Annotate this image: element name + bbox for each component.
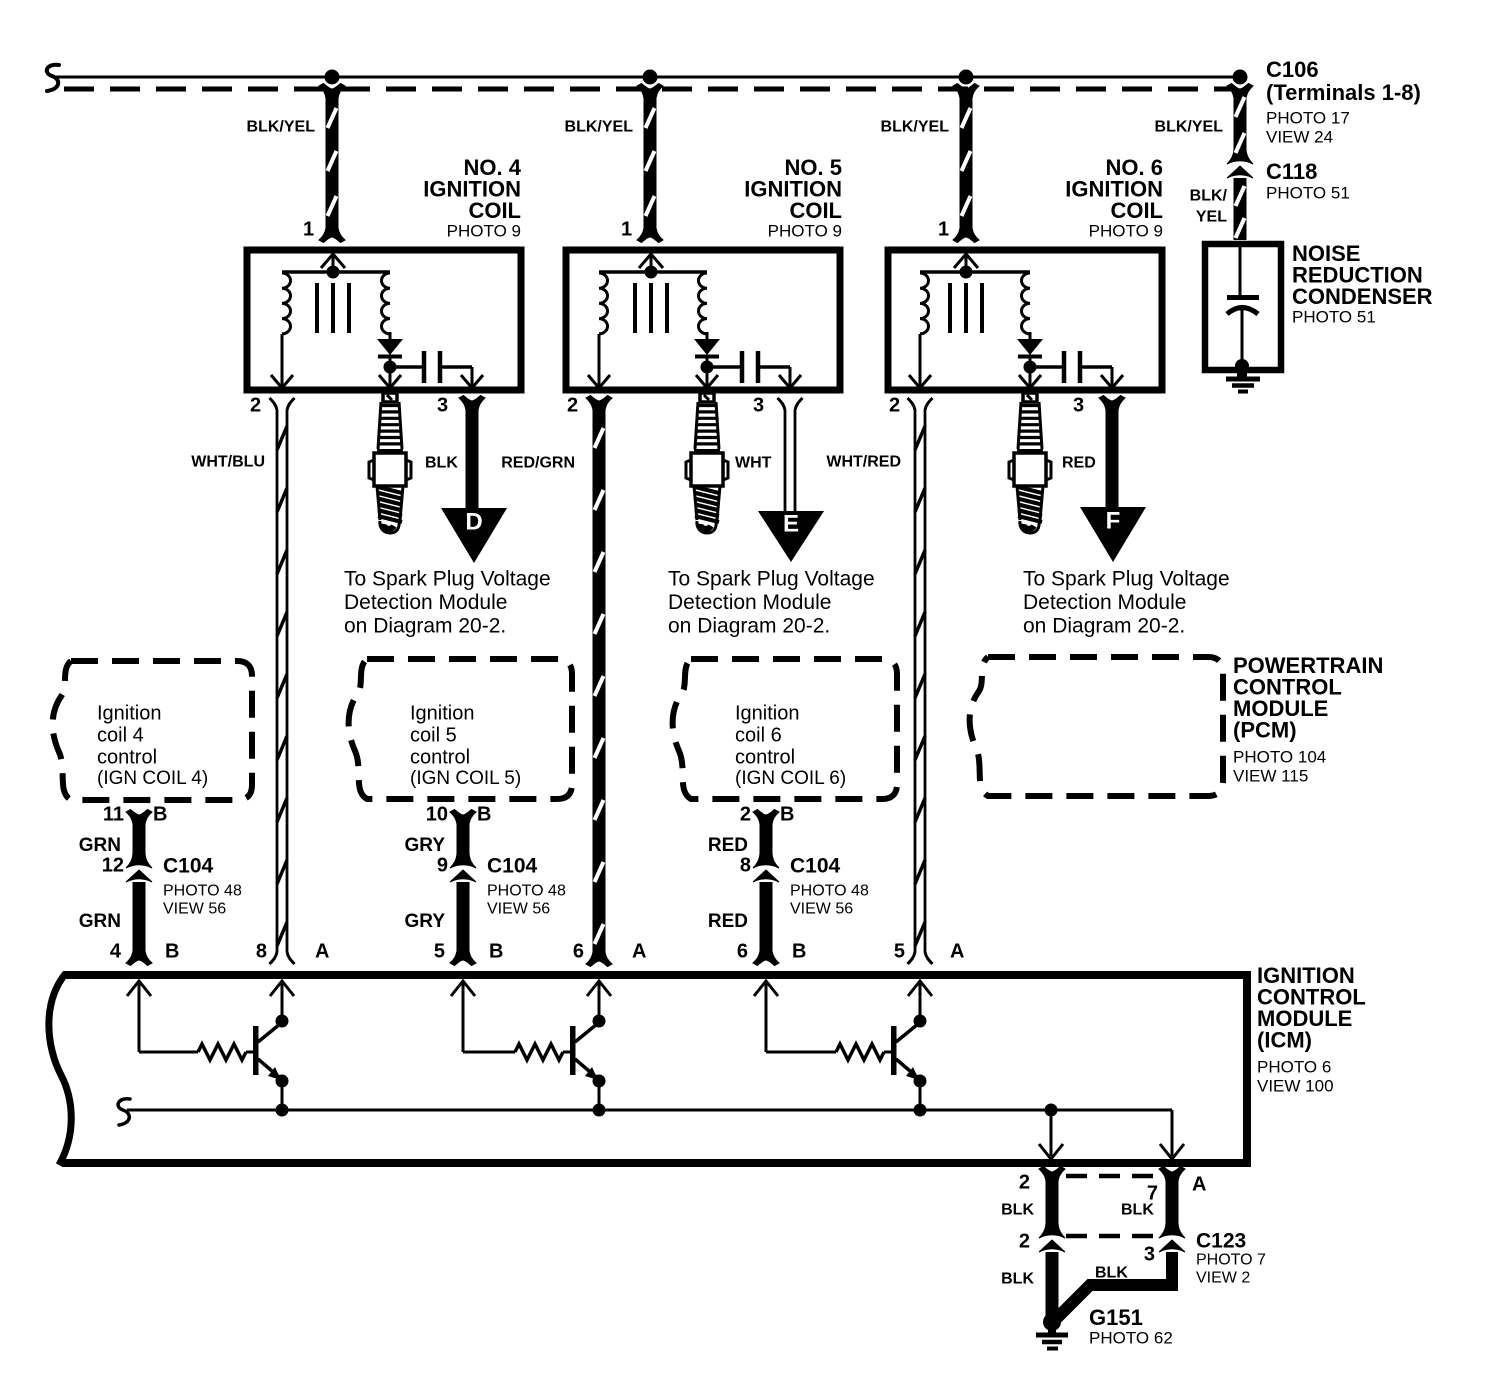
svg-text:Ignition: Ignition <box>410 703 475 725</box>
svg-text:8: 8 <box>256 941 267 963</box>
svg-text:BLK/YEL: BLK/YEL <box>565 119 634 136</box>
svg-text:B: B <box>477 804 491 826</box>
svg-text:VIEW 115: VIEW 115 <box>1233 766 1308 785</box>
svg-text:C123: C123 <box>1196 1229 1246 1252</box>
svg-text:2: 2 <box>1019 1231 1030 1253</box>
svg-text:PHOTO 9: PHOTO 9 <box>1089 221 1163 240</box>
svg-text:BLK/YEL: BLK/YEL <box>881 119 950 136</box>
svg-text:F: F <box>1106 508 1121 535</box>
svg-text:VIEW 24: VIEW 24 <box>1266 127 1333 146</box>
svg-text:on Diagram 20-2.: on Diagram 20-2. <box>668 614 830 637</box>
svg-text:PHOTO 48: PHOTO 48 <box>163 883 242 900</box>
svg-text:(IGN COIL 5): (IGN COIL 5) <box>410 768 521 789</box>
svg-text:GRN: GRN <box>79 835 121 856</box>
svg-text:A: A <box>632 941 646 963</box>
svg-text:CONDENSER: CONDENSER <box>1292 284 1433 309</box>
svg-text:BLK/YEL: BLK/YEL <box>1155 119 1224 136</box>
svg-text:VIEW 56: VIEW 56 <box>790 901 853 918</box>
svg-text:COIL: COIL <box>468 198 521 223</box>
svg-text:3: 3 <box>437 395 448 417</box>
svg-text:3: 3 <box>1073 395 1084 417</box>
svg-text:BLK: BLK <box>1001 1271 1034 1288</box>
svg-text:3: 3 <box>1144 1244 1155 1266</box>
svg-text:2: 2 <box>889 395 900 417</box>
svg-text:BLK: BLK <box>1001 1202 1034 1219</box>
svg-text:1: 1 <box>938 219 949 241</box>
svg-text:PHOTO 7: PHOTO 7 <box>1196 1252 1266 1269</box>
svg-text:5: 5 <box>894 941 905 963</box>
svg-text:(IGN COIL 6): (IGN COIL 6) <box>735 768 846 789</box>
svg-text:GRN: GRN <box>79 911 121 932</box>
svg-text:PHOTO 9: PHOTO 9 <box>768 221 842 240</box>
svg-text:BLK: BLK <box>1121 1202 1154 1219</box>
svg-text:6: 6 <box>737 941 748 963</box>
svg-text:B: B <box>792 941 806 963</box>
svg-text:WHT: WHT <box>735 455 772 472</box>
svg-text:E: E <box>783 511 799 538</box>
svg-text:D: D <box>465 509 482 536</box>
svg-text:Detection Module: Detection Module <box>1023 591 1186 614</box>
svg-text:B: B <box>489 941 503 963</box>
svg-text:PHOTO 51: PHOTO 51 <box>1266 183 1350 202</box>
svg-text:on Diagram 20-2.: on Diagram 20-2. <box>1023 614 1185 637</box>
svg-text:control: control <box>97 747 157 769</box>
svg-text:VIEW 56: VIEW 56 <box>487 901 550 918</box>
svg-text:12: 12 <box>102 855 124 877</box>
svg-text:BLK/: BLK/ <box>1190 188 1228 205</box>
svg-text:G151: G151 <box>1089 1305 1143 1330</box>
svg-text:RED: RED <box>708 911 748 932</box>
svg-text:BLK/YEL: BLK/YEL <box>247 119 316 136</box>
svg-text:To Spark Plug Voltage: To Spark Plug Voltage <box>1023 567 1230 590</box>
svg-text:control: control <box>410 747 470 769</box>
svg-text:B: B <box>780 804 794 826</box>
svg-text:Ignition: Ignition <box>735 703 800 725</box>
svg-text:coil 6: coil 6 <box>735 725 782 747</box>
svg-text:VIEW 56: VIEW 56 <box>163 901 226 918</box>
svg-text:coil 4: coil 4 <box>97 725 144 747</box>
svg-text:(ICM): (ICM) <box>1257 1028 1312 1053</box>
svg-text:COIL: COIL <box>1110 198 1163 223</box>
svg-text:C106: C106 <box>1266 57 1319 82</box>
svg-text:2: 2 <box>740 804 751 826</box>
svg-text:11: 11 <box>103 804 124 826</box>
svg-text:1: 1 <box>303 219 314 241</box>
svg-text:Detection Module: Detection Module <box>668 591 831 614</box>
svg-text:2: 2 <box>250 395 261 417</box>
svg-text:Ignition: Ignition <box>97 703 162 725</box>
svg-text:PHOTO 104: PHOTO 104 <box>1233 747 1326 766</box>
svg-text:(Terminals 1-8): (Terminals 1-8) <box>1266 80 1421 105</box>
svg-text:C118: C118 <box>1266 159 1317 184</box>
svg-text:(PCM): (PCM) <box>1233 718 1297 743</box>
svg-text:YEL: YEL <box>1196 209 1227 226</box>
svg-text:RED: RED <box>1062 455 1096 472</box>
svg-text:VIEW 100: VIEW 100 <box>1257 1076 1334 1095</box>
svg-text:2: 2 <box>1019 1172 1030 1194</box>
svg-text:C104: C104 <box>790 854 841 877</box>
svg-text:To Spark Plug Voltage: To Spark Plug Voltage <box>668 567 875 590</box>
svg-text:A: A <box>315 941 329 963</box>
svg-text:BLK: BLK <box>425 455 458 472</box>
svg-text:6: 6 <box>573 941 584 963</box>
svg-text:To Spark Plug Voltage: To Spark Plug Voltage <box>344 567 551 590</box>
svg-text:(IGN COIL 4): (IGN COIL 4) <box>97 768 208 789</box>
svg-text:B: B <box>153 804 167 826</box>
svg-text:PHOTO 9: PHOTO 9 <box>447 221 521 240</box>
svg-text:PHOTO 51: PHOTO 51 <box>1292 307 1376 326</box>
svg-text:GRY: GRY <box>405 835 446 856</box>
svg-text:PHOTO 6: PHOTO 6 <box>1257 1057 1331 1076</box>
svg-text:WHT/BLU: WHT/BLU <box>191 454 265 471</box>
svg-text:A: A <box>1192 1174 1206 1196</box>
svg-text:PHOTO 62: PHOTO 62 <box>1089 1328 1173 1347</box>
svg-text:VIEW 2: VIEW 2 <box>1196 1270 1250 1287</box>
svg-text:A: A <box>950 941 964 963</box>
svg-text:PHOTO 48: PHOTO 48 <box>487 883 566 900</box>
svg-text:BLK: BLK <box>1095 1265 1128 1282</box>
svg-text:coil 5: coil 5 <box>410 725 457 747</box>
svg-text:COIL: COIL <box>789 198 842 223</box>
svg-text:1: 1 <box>621 219 632 241</box>
svg-text:WHT/RED: WHT/RED <box>826 454 901 471</box>
svg-text:PHOTO 17: PHOTO 17 <box>1266 108 1350 127</box>
svg-text:RED/GRN: RED/GRN <box>501 455 575 472</box>
svg-text:control: control <box>735 747 795 769</box>
svg-text:on Diagram 20-2.: on Diagram 20-2. <box>344 614 506 637</box>
svg-text:Detection Module: Detection Module <box>344 591 507 614</box>
svg-text:2: 2 <box>567 395 578 417</box>
svg-text:PHOTO 48: PHOTO 48 <box>790 883 869 900</box>
svg-text:9: 9 <box>437 855 448 877</box>
svg-text:4: 4 <box>110 941 122 963</box>
svg-text:B: B <box>165 941 179 963</box>
svg-text:C104: C104 <box>487 854 538 877</box>
svg-text:GRY: GRY <box>405 911 446 932</box>
svg-text:10: 10 <box>426 804 448 826</box>
svg-text:C104: C104 <box>163 854 214 877</box>
svg-text:3: 3 <box>753 395 764 417</box>
svg-text:5: 5 <box>434 941 445 963</box>
svg-text:RED: RED <box>708 835 748 856</box>
svg-text:8: 8 <box>740 855 751 877</box>
